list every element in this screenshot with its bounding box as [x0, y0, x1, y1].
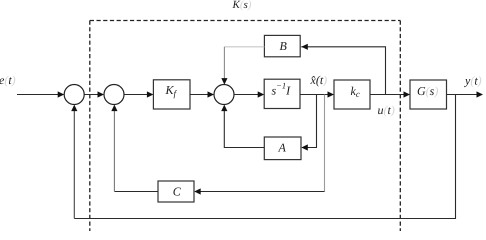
svg-text:G(s): G(s): [417, 84, 438, 98]
wire C output to bottom of S2: [111, 105, 158, 192]
block G(s) plant: [410, 80, 447, 109]
svg-text:K(s): K(s): [232, 0, 252, 11]
wire xhat node down and into block C: [194, 95, 324, 195]
wire u node up and into block B: [301, 44, 385, 95]
svg-text:C: C: [173, 185, 182, 199]
svg-text:e(t): e(t): [0, 73, 16, 87]
wire output feedback y to bottom of S1: [71, 95, 455, 219]
block kc: [334, 80, 370, 109]
summing junction S2: [104, 85, 124, 105]
svg-text:u(t): u(t): [378, 103, 395, 117]
wire Kf to summing junction S3: [190, 91, 214, 97]
block C: [158, 181, 194, 202]
wire A output to bottom of S3: [221, 105, 264, 148]
dashed boundary box K(s): [90, 21, 401, 232]
svg-text:x̂(t): x̂(t): [310, 73, 328, 87]
wire G(s) to output y(t): [447, 91, 484, 97]
wire e(t) input to summing junction S1: [17, 91, 64, 97]
wire s^-1 I to block kc (xhat node): [300, 91, 334, 97]
summing junction S1: [64, 85, 84, 105]
wire kc to block G(s) (u node): [370, 91, 410, 97]
wire S1 to S2: [84, 91, 104, 97]
svg-text:y(t): y(t): [464, 74, 482, 88]
node e(t) input label: [0, 73, 16, 87]
wire xhat node down and into block A: [301, 95, 316, 151]
block A: [264, 137, 301, 160]
node y(t) label: [464, 74, 482, 88]
node K(s) label: [232, 0, 252, 11]
summing junction S3: [214, 85, 234, 105]
block s^-1 I (integrator): [264, 79, 300, 108]
node u(t) label: [378, 103, 395, 117]
block B: [264, 35, 300, 56]
wire S2 to block Kf: [124, 91, 153, 97]
wire S3 to block s^-1 I: [234, 91, 264, 97]
wire B output to top of S3: [221, 47, 264, 85]
block Kf: [153, 80, 190, 109]
svg-text:B: B: [280, 39, 288, 53]
node xhat(t) label: [310, 73, 328, 87]
svg-text:A: A: [278, 141, 287, 155]
